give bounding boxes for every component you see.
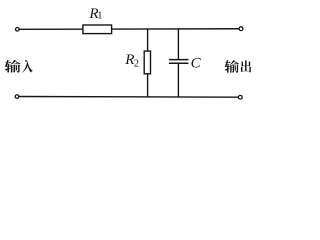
svg-text:C: C — [191, 56, 202, 72]
svg-text:2: 2 — [134, 59, 139, 70]
svg-text:1: 1 — [97, 11, 102, 22]
